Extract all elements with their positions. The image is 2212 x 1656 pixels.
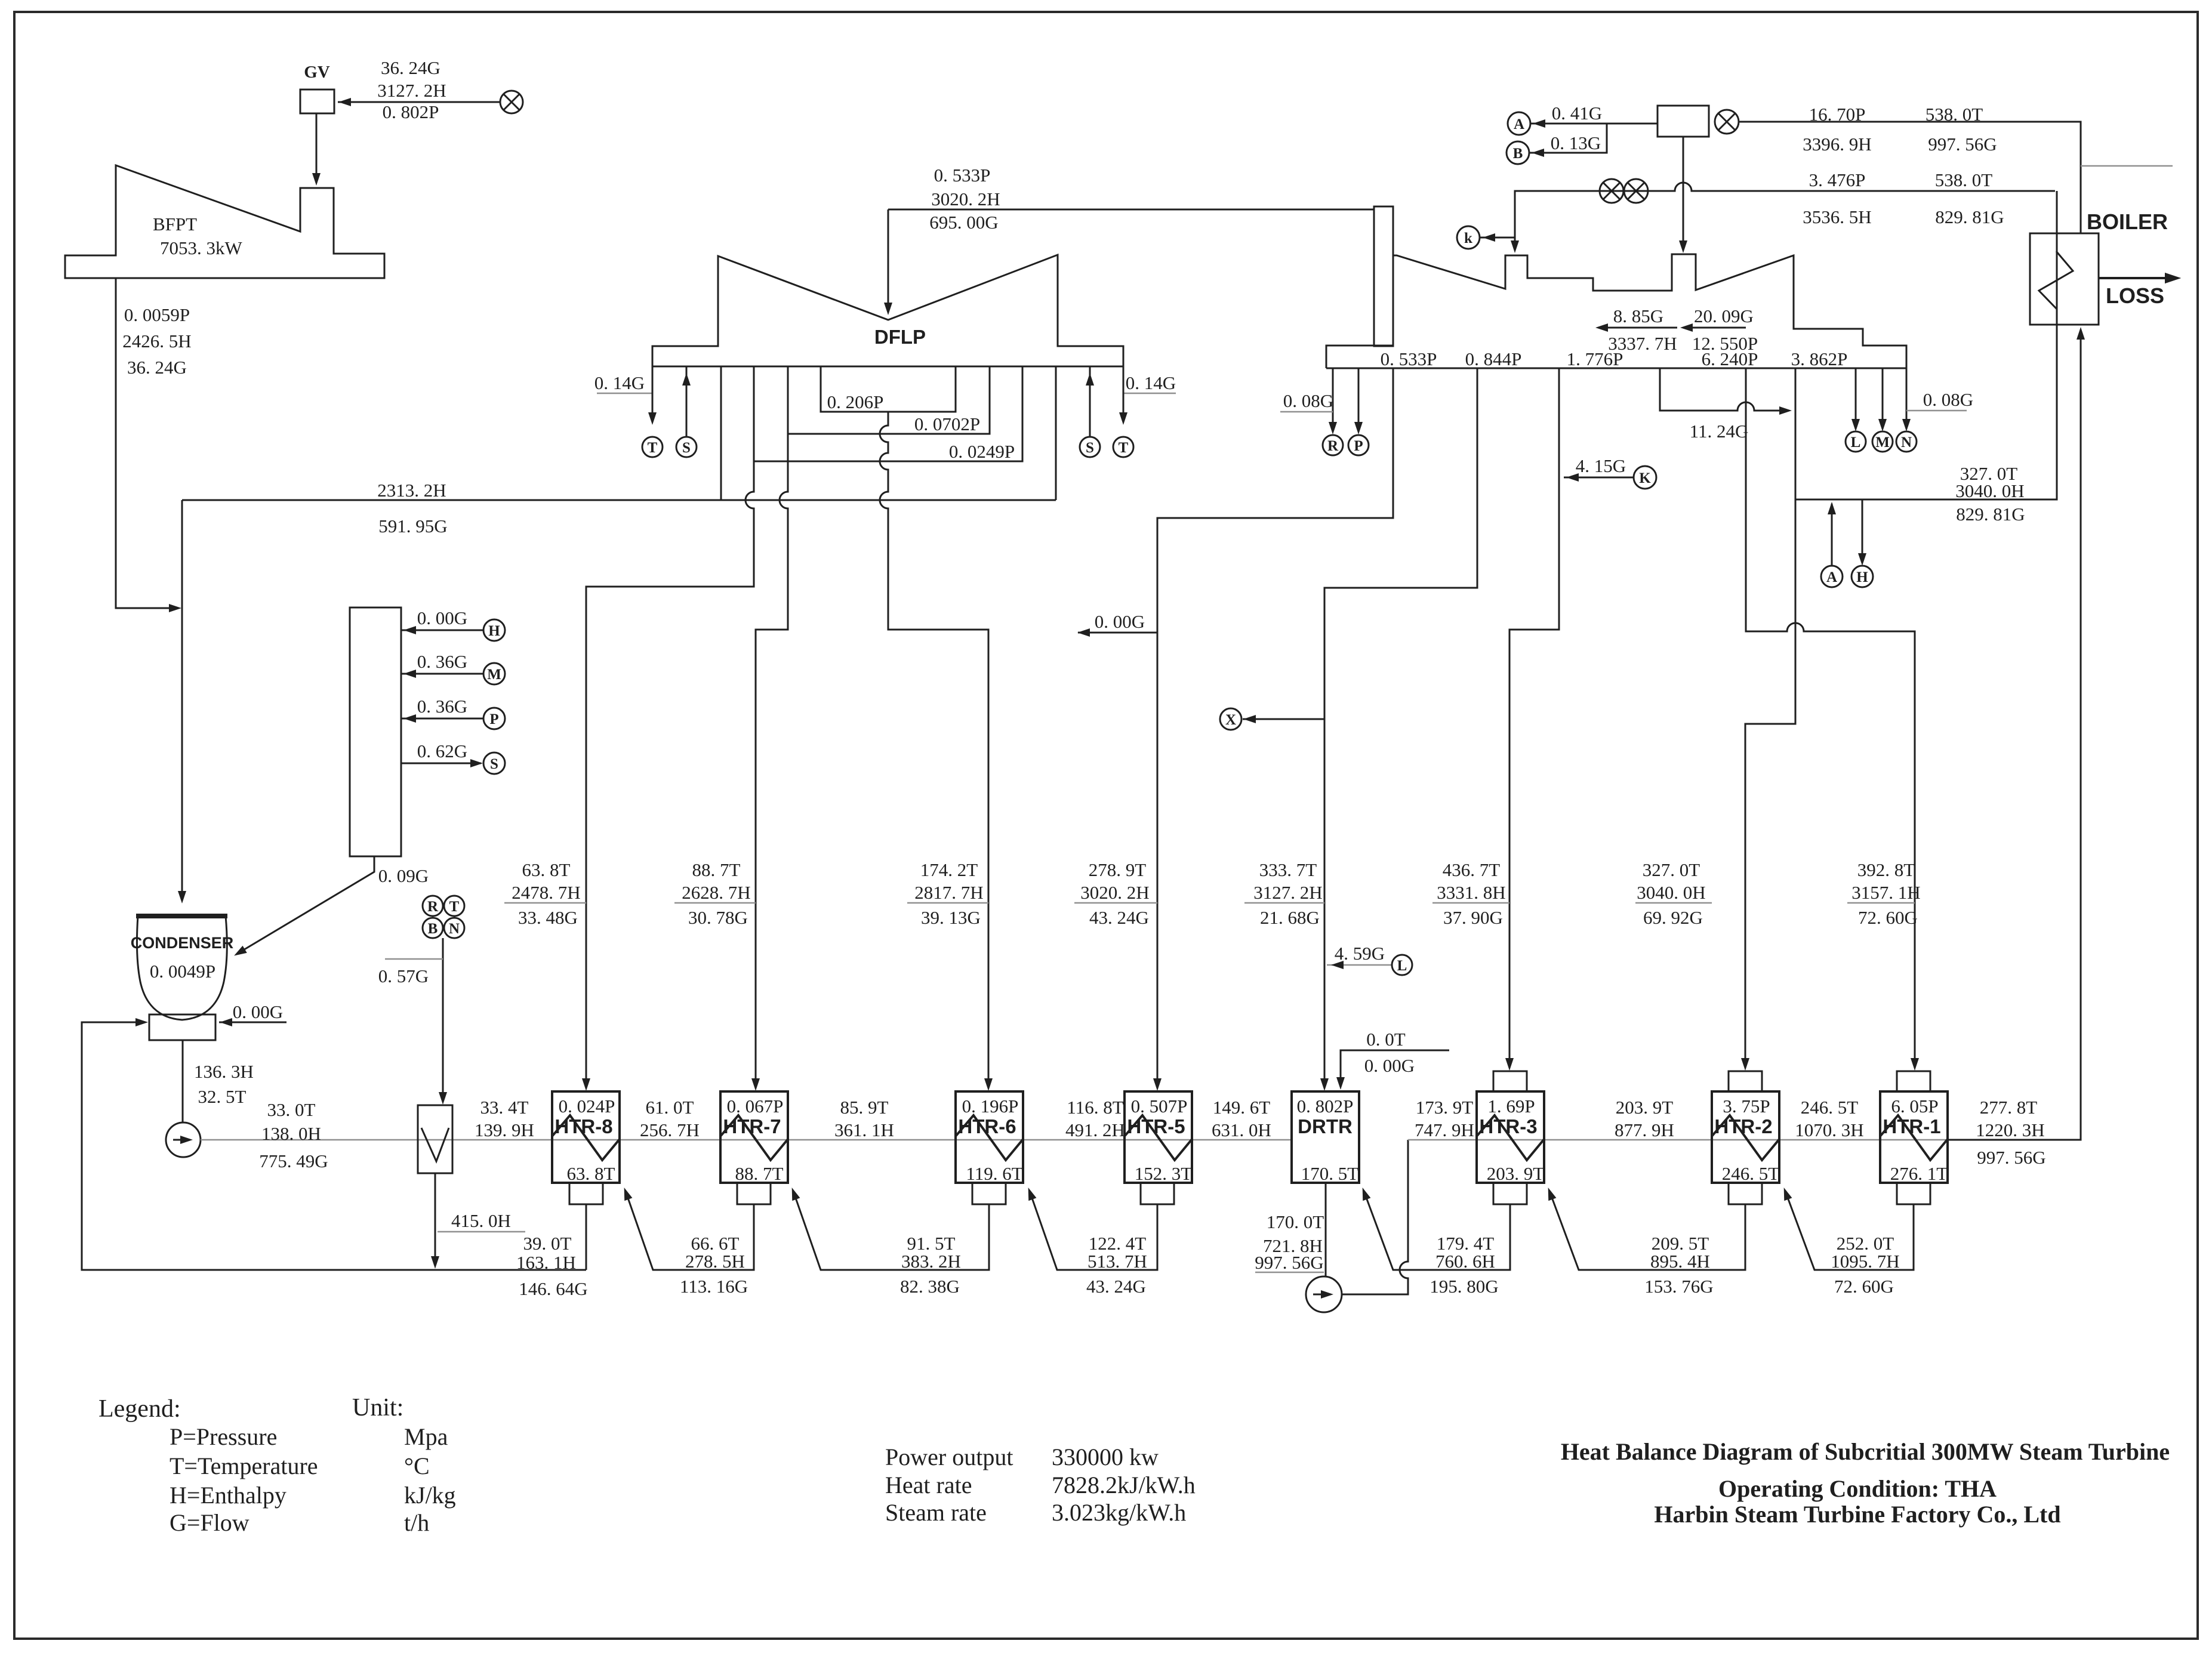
heater HTR-1 bottom box <box>1897 1183 1930 1204</box>
svg-text:139. 9H: 139. 9H <box>475 1120 534 1140</box>
wire BFPT exhaust down <box>116 278 178 608</box>
svg-text:0. 533P: 0. 533P <box>934 165 991 186</box>
wire H drop <box>1862 499 1863 563</box>
svg-text:3127. 2H: 3127. 2H <box>1253 882 1322 903</box>
svg-text:t/h: t/h <box>404 1509 429 1536</box>
svg-text:0. 802P: 0. 802P <box>383 101 439 122</box>
svg-text:DFLP: DFLP <box>874 326 926 348</box>
svg-text:0. 0049P: 0. 0049P <box>150 961 215 982</box>
svg-text:B: B <box>428 921 438 937</box>
svg-text:2426. 5H: 2426. 5H <box>122 331 191 351</box>
svg-text:173. 9T: 173. 9T <box>1416 1097 1474 1118</box>
node circle H (reheat) <box>1851 566 1873 587</box>
wire BFP discharge riser <box>1342 1140 1408 1294</box>
svg-text:8. 85G: 8. 85G <box>1613 306 1663 326</box>
svg-text:CONDENSER: CONDENSER <box>131 934 234 952</box>
turbine DFLP body <box>652 255 1123 366</box>
svg-text:N: N <box>1901 434 1912 451</box>
svg-text:39. 13G: 39. 13G <box>921 907 981 928</box>
svg-text:6. 05P: 6. 05P <box>1891 1096 1938 1117</box>
svg-text:H: H <box>488 623 500 639</box>
svg-text:3536. 5H: 3536. 5H <box>1803 206 1871 227</box>
heater HTR-6 drain box <box>972 1183 1006 1204</box>
svg-text:0. 57G: 0. 57G <box>378 966 429 986</box>
wire S tap <box>401 763 481 764</box>
svg-text:0. 14G: 0. 14G <box>1126 372 1176 393</box>
heater HTR-1 top box <box>1897 1071 1930 1091</box>
svg-text:61. 0T: 61. 0T <box>646 1097 694 1118</box>
svg-text:P=Pressure: P=Pressure <box>170 1423 277 1450</box>
wire 0.14G right <box>1123 393 1176 394</box>
svg-text:0. 00G: 0. 00G <box>233 1001 283 1022</box>
svg-text:33. 4T: 33. 4T <box>480 1097 529 1118</box>
svg-text:138. 0H: 138. 0H <box>261 1123 321 1144</box>
svg-text:HTR-7: HTR-7 <box>723 1115 781 1137</box>
node circle M <box>483 663 505 684</box>
svg-text:L: L <box>1851 434 1861 451</box>
svg-text:°C: °C <box>404 1453 430 1479</box>
svg-text:163. 1H: 163. 1H <box>516 1252 576 1273</box>
svg-text:82. 38G: 82. 38G <box>900 1276 960 1297</box>
svg-text:X: X <box>1225 712 1236 728</box>
wire 0.57G tick <box>385 958 443 960</box>
svg-text:760. 6H: 760. 6H <box>1435 1251 1495 1272</box>
wire HTR-2 drain cascade <box>1549 1191 1745 1270</box>
heater HTR-3 <box>1477 1091 1544 1183</box>
svg-text:3. 75P: 3. 75P <box>1723 1096 1770 1117</box>
wire HTR-1 drain cascade <box>1785 1191 1914 1270</box>
svg-text:39. 0T: 39. 0T <box>523 1233 572 1254</box>
boiler zigzag <box>2039 251 2073 309</box>
svg-text:0. 0059P: 0. 0059P <box>124 304 190 325</box>
svg-text:276. 1T: 276. 1T <box>1890 1163 1948 1184</box>
svg-text:63. 8T: 63. 8T <box>522 859 571 880</box>
svg-text:G=Flow: G=Flow <box>170 1509 249 1536</box>
wire 0.00G makeup <box>219 1022 286 1023</box>
svg-text:Operating Condition: THA: Operating Condition: THA <box>1718 1475 1997 1502</box>
svg-text:170. 5T: 170. 5T <box>1301 1163 1359 1184</box>
wire 0.08G left <box>1280 411 1333 413</box>
valve X (BFPT steam source) <box>500 91 523 113</box>
svg-text:246. 5T: 246. 5T <box>1801 1097 1859 1118</box>
svg-text:3040. 0H: 3040. 0H <box>1637 882 1705 903</box>
svg-text:1. 69P: 1. 69P <box>1487 1096 1535 1117</box>
svg-text:37. 90G: 37. 90G <box>1443 907 1503 928</box>
svg-text:16. 70P: 16. 70P <box>1809 104 1866 125</box>
svg-text:0. 802P: 0. 802P <box>1297 1096 1354 1117</box>
svg-text:Power output: Power output <box>885 1444 1013 1470</box>
svg-text:Mpa: Mpa <box>404 1423 448 1450</box>
wire HTR-6 steam supply <box>880 412 988 1087</box>
svg-text:392. 8T: 392. 8T <box>1857 859 1915 880</box>
svg-text:0. 14G: 0. 14G <box>594 372 645 393</box>
wire LP tap to exhaust line (left) <box>720 366 722 500</box>
wire LP inlet <box>888 209 889 310</box>
svg-text:415. 0H: 415. 0H <box>451 1210 511 1231</box>
heater HTR-2 top box <box>1729 1071 1762 1091</box>
svg-text:0. 844P: 0. 844P <box>1465 349 1522 369</box>
gland steam cooler <box>418 1105 452 1173</box>
heater HTR-6 <box>956 1091 1023 1183</box>
svg-text:152. 3T: 152. 3T <box>1135 1163 1193 1184</box>
svg-text:0. 024P: 0. 024P <box>559 1096 615 1117</box>
svg-text:997. 56G: 997. 56G <box>1928 134 1997 155</box>
svg-text:R: R <box>427 899 439 915</box>
turbine IP-HP body <box>1393 254 1906 368</box>
node circle P <box>1348 435 1369 455</box>
svg-text:6. 240P: 6. 240P <box>1702 349 1758 369</box>
svg-text:2817. 7H: 2817. 7H <box>914 882 983 903</box>
svg-text:36. 24G: 36. 24G <box>127 357 187 378</box>
svg-text:0. 13G: 0. 13G <box>1551 132 1601 153</box>
svg-text:BFPT: BFPT <box>153 214 197 235</box>
svg-text:153. 76G: 153. 76G <box>1644 1276 1713 1297</box>
svg-text:L: L <box>1397 958 1407 974</box>
wire 0.00G vent on HTR-5 supply <box>1078 632 1157 634</box>
svg-text:203. 9T: 203. 9T <box>1487 1163 1545 1184</box>
svg-text:631. 0H: 631. 0H <box>1212 1120 1271 1140</box>
wire feedwater line right <box>1408 1139 1948 1141</box>
svg-text:30. 78G: 30. 78G <box>688 907 748 928</box>
node 0.0702P equalizer box <box>788 366 990 434</box>
svg-text:S: S <box>1086 440 1094 456</box>
svg-text:36. 24G: 36. 24G <box>381 57 440 78</box>
node 0.206P equalizer box <box>821 366 956 412</box>
wire condenser inlet vertical <box>181 500 183 900</box>
svg-text:kJ/kg: kJ/kg <box>404 1482 456 1509</box>
svg-text:0. 00G: 0. 00G <box>1095 611 1145 632</box>
svg-text:695. 00G: 695. 00G <box>929 212 998 233</box>
svg-text:32. 5T: 32. 5T <box>198 1086 247 1107</box>
wire N tap <box>1906 368 1908 428</box>
svg-text:3040. 0H: 3040. 0H <box>1955 480 2024 501</box>
svg-text:A: A <box>1826 569 1837 585</box>
svg-text:T: T <box>1119 440 1129 456</box>
svg-text:7828.2kJ/kW.h: 7828.2kJ/kW.h <box>1052 1472 1196 1498</box>
svg-text:DRTR: DRTR <box>1298 1115 1353 1137</box>
svg-text:174. 2T: 174. 2T <box>920 859 978 880</box>
heater HTR-2 <box>1712 1091 1779 1183</box>
svg-text:P: P <box>1354 438 1363 454</box>
svg-text:11. 24G: 11. 24G <box>1690 421 1749 442</box>
heater HTR-8 drain box <box>569 1183 603 1204</box>
svg-text:4. 15G: 4. 15G <box>1576 455 1626 476</box>
svg-text:Harbin Steam Turbine Factory C: Harbin Steam Turbine Factory Co., Ltd <box>1654 1501 2060 1528</box>
svg-text:3. 862P: 3. 862P <box>1791 349 1848 369</box>
svg-text:895. 4H: 895. 4H <box>1650 1251 1710 1272</box>
wire M tap <box>401 673 483 675</box>
svg-text:491. 2H: 491. 2H <box>1065 1120 1125 1140</box>
svg-text:0. 00G: 0. 00G <box>417 607 467 628</box>
svg-text:146. 64G: 146. 64G <box>519 1278 587 1299</box>
svg-text:113. 16G: 113. 16G <box>680 1276 748 1297</box>
svg-text:3331. 8H: 3331. 8H <box>1437 882 1505 903</box>
wire R tap <box>1332 368 1334 431</box>
node circle S <box>483 753 505 774</box>
svg-text:0. 507P: 0. 507P <box>1131 1096 1188 1117</box>
svg-text:LOSS: LOSS <box>2106 283 2164 308</box>
wire from S circle left <box>686 366 688 437</box>
wire A riser <box>1831 504 1833 566</box>
svg-text:0. 0702P: 0. 0702P <box>914 414 980 434</box>
svg-text:Steam rate: Steam rate <box>885 1499 987 1526</box>
wire LP tap to exhaust line (right) <box>1055 366 1057 500</box>
svg-text:2478. 7H: 2478. 7H <box>512 882 580 903</box>
svg-text:829. 81G: 829. 81G <box>1935 206 2004 227</box>
svg-text:0. 36G: 0. 36G <box>417 696 467 717</box>
svg-text:330000 kw: 330000 kw <box>1052 1444 1159 1470</box>
svg-text:Legend:: Legend: <box>98 1395 181 1423</box>
wire HTR-5 steam supply (0.533P) <box>1157 368 1393 1087</box>
svg-text:538. 0T: 538. 0T <box>1926 104 1983 125</box>
node circle B <box>1506 141 1529 164</box>
wire gland flow 8.85G <box>1598 327 1677 329</box>
svg-text:1070. 3H: 1070. 3H <box>1795 1120 1863 1140</box>
svg-text:HTR-5: HTR-5 <box>1127 1115 1185 1137</box>
svg-text:3020. 2H: 3020. 2H <box>931 189 1000 209</box>
svg-text:0. 0T: 0. 0T <box>1366 1029 1406 1050</box>
wire P tap <box>1358 368 1360 431</box>
heater HTR-8 <box>552 1091 620 1183</box>
svg-text:H=Enthalpy: H=Enthalpy <box>170 1482 286 1509</box>
svg-text:877. 9H: 877. 9H <box>1615 1120 1674 1140</box>
wire 0.41G <box>1530 123 1658 125</box>
wire condenser return loop <box>82 1022 586 1270</box>
svg-text:278. 5H: 278. 5H <box>685 1251 745 1272</box>
svg-text:B: B <box>1513 146 1523 162</box>
wire HTR-8 drain to condenser line <box>586 1204 587 1270</box>
svg-text:277. 8T: 277. 8T <box>1980 1097 2038 1118</box>
svg-text:H: H <box>1856 569 1868 585</box>
wire M tap <box>1882 368 1884 428</box>
svg-text:0. 533P: 0. 533P <box>1381 349 1437 369</box>
wire cold reheat line <box>1795 191 2057 499</box>
wire DRTR aux inlet 0.0T <box>1341 1050 1449 1086</box>
condenser top thick edge <box>136 914 227 918</box>
wire condensate to pump <box>182 1040 184 1122</box>
wire manifold lip <box>1326 346 1393 368</box>
svg-text:3127. 2H: 3127. 2H <box>377 80 446 101</box>
svg-text:3157. 1H: 3157. 1H <box>1851 882 1920 903</box>
svg-text:333. 7T: 333. 7T <box>1259 859 1317 880</box>
heater HTR-1 <box>1880 1091 1948 1183</box>
svg-text:246. 5T: 246. 5T <box>1722 1163 1780 1184</box>
svg-text:T: T <box>449 899 460 915</box>
valve HP X <box>1715 110 1739 134</box>
svg-text:S: S <box>682 440 691 456</box>
svg-text:GV: GV <box>304 63 330 82</box>
wire LP exhaust to condenser (2313.2H line) <box>182 499 1056 501</box>
condenser hotwell <box>149 1014 215 1040</box>
heater HTR-5 <box>1125 1091 1192 1183</box>
tank SSR gland steam header <box>350 607 401 856</box>
svg-text:513. 7H: 513. 7H <box>1087 1251 1147 1272</box>
condenser shell <box>137 916 227 1020</box>
wire HTR-8 steam supply <box>586 461 754 1087</box>
svg-text:2628. 7H: 2628. 7H <box>682 882 750 903</box>
svg-text:Heat rate: Heat rate <box>885 1472 972 1498</box>
svg-text:136. 3H: 136. 3H <box>194 1061 254 1082</box>
svg-text:21. 68G: 21. 68G <box>1260 907 1320 928</box>
wire extraction manifold <box>1326 368 1906 369</box>
svg-text:0. 0249P: 0. 0249P <box>949 441 1015 462</box>
wire HTR-2 steam supply / cold reheat riser (3.862P) <box>1745 368 1795 1068</box>
node circle L <box>1846 431 1866 452</box>
wire k tap <box>1480 237 1515 239</box>
svg-text:1095. 7H: 1095. 7H <box>1831 1251 1899 1272</box>
svg-text:0. 08G: 0. 08G <box>1283 390 1333 411</box>
svg-text:0. 08G: 0. 08G <box>1923 389 1973 410</box>
wire LP crossover pipe <box>888 209 1374 211</box>
wire gland flow 20.09G <box>1683 327 1746 329</box>
wire LOSS arrow <box>2099 277 2176 279</box>
node circle k <box>1457 226 1480 249</box>
svg-text:Heat Balance Diagram of Subcri: Heat Balance Diagram of Subcritial 300MW… <box>1561 1438 2170 1465</box>
svg-text:43. 24G: 43. 24G <box>1089 907 1149 928</box>
svg-text:383. 2H: 383. 2H <box>901 1251 961 1272</box>
wire 0.08G right <box>1906 410 1967 412</box>
svg-text:997. 56G: 997. 56G <box>1977 1147 2045 1168</box>
svg-text:2313. 2H: 2313. 2H <box>377 480 446 501</box>
svg-text:0. 067P: 0. 067P <box>727 1096 784 1117</box>
svg-text:72. 60G: 72. 60G <box>1834 1276 1894 1297</box>
wire X tap <box>1243 718 1324 720</box>
svg-text:116. 8T: 116. 8T <box>1067 1097 1123 1118</box>
svg-text:N: N <box>449 921 460 937</box>
svg-text:436. 7T: 436. 7T <box>1443 859 1501 880</box>
node circles R T B N <box>423 896 443 916</box>
svg-text:T: T <box>648 440 658 456</box>
svg-text:591. 95G: 591. 95G <box>378 516 447 536</box>
svg-text:33. 0T: 33. 0T <box>267 1099 316 1120</box>
svg-text:119. 6T: 119. 6T <box>966 1163 1022 1184</box>
valve reheat intercept 1 <box>1624 179 1648 203</box>
wire L tap 4.59G <box>1327 964 1391 966</box>
svg-text:203. 9T: 203. 9T <box>1616 1097 1674 1118</box>
wire L tap from manifold <box>1855 368 1857 428</box>
wire DRTR steam supply (0.844P) <box>1324 368 1477 1087</box>
svg-text:HTR-3: HTR-3 <box>1479 1115 1537 1137</box>
svg-text:361. 1H: 361. 1H <box>834 1120 894 1140</box>
wire main steam line <box>1739 122 2081 233</box>
wire stub top right <box>2081 165 2173 167</box>
wire X-to-GV steam supply <box>338 101 500 103</box>
svg-text:829. 81G: 829. 81G <box>1956 504 2025 525</box>
svg-text:0. 196P: 0. 196P <box>962 1096 1019 1117</box>
node S right <box>1080 437 1100 457</box>
svg-text:HTR-1: HTR-1 <box>1883 1115 1940 1137</box>
wire GV to BFPT inlet <box>316 113 318 183</box>
svg-text:0. 00G: 0. 00G <box>1364 1055 1415 1076</box>
wire feedwater to boiler <box>1948 329 2081 1140</box>
svg-text:63. 8T: 63. 8T <box>567 1163 615 1184</box>
svg-text:69. 92G: 69. 92G <box>1643 907 1703 928</box>
svg-text:T=Temperature: T=Temperature <box>170 1453 318 1479</box>
node 0.0249P equalizer box <box>754 366 1022 461</box>
node circle K <box>1634 466 1656 489</box>
svg-text:0. 41G: 0. 41G <box>1552 103 1602 124</box>
svg-text:747. 9H: 747. 9H <box>1415 1120 1474 1140</box>
valve HP stop-control box <box>1658 106 1709 137</box>
heater HTR-7 <box>720 1091 788 1183</box>
turbine BFPT body <box>65 165 384 278</box>
svg-text:R: R <box>1327 438 1339 454</box>
svg-text:HTR-2: HTR-2 <box>1714 1115 1772 1137</box>
svg-text:HTR-8: HTR-8 <box>554 1115 612 1137</box>
wire H tap <box>401 630 483 631</box>
node circle P <box>483 708 505 729</box>
wire HTR-5 drain cascade <box>1030 1191 1157 1270</box>
svg-text:538. 0T: 538. 0T <box>1935 169 1993 190</box>
wire 0.14G left <box>597 393 652 394</box>
wire to T circle right <box>1123 366 1125 421</box>
svg-text:43. 24G: 43. 24G <box>1086 1276 1146 1297</box>
wire HTR-1 steam supply (6.240P) <box>1746 368 1915 1068</box>
wire from S circle right <box>1089 366 1091 437</box>
svg-text:72. 60G: 72. 60G <box>1858 907 1918 928</box>
heater HTR-7 drain box <box>737 1183 771 1204</box>
node circle H <box>483 619 505 641</box>
svg-text:P: P <box>489 711 498 727</box>
wire HTR-3 steam supply (1.776P) <box>1509 368 1559 1068</box>
svg-text:M: M <box>1875 434 1890 451</box>
svg-text:33. 48G: 33. 48G <box>518 907 578 928</box>
wire 11.24G branch <box>1660 368 1788 411</box>
svg-text:149. 6T: 149. 6T <box>1213 1097 1271 1118</box>
node circle R <box>1323 435 1343 455</box>
node circle A (valve leak) <box>1508 112 1530 135</box>
svg-text:1. 776P: 1. 776P <box>1567 349 1623 369</box>
node circle A (reheat) <box>1821 566 1843 587</box>
heater HTR-5 drain box <box>1141 1183 1174 1204</box>
wire K tap 4.15G <box>1564 477 1634 479</box>
node circle X <box>1220 708 1241 730</box>
node LP end box <box>1374 206 1393 346</box>
boiler box <box>2030 233 2099 325</box>
svg-text:0. 09G: 0. 09G <box>378 865 429 886</box>
svg-text:88. 7T: 88. 7T <box>692 859 741 880</box>
svg-text:7053. 3kW: 7053. 3kW <box>160 238 243 258</box>
svg-text:0. 206P: 0. 206P <box>827 391 884 412</box>
svg-text:3.023kg/kW.h: 3.023kg/kW.h <box>1052 1499 1186 1526</box>
heater HTR-2 bottom box <box>1729 1183 1762 1204</box>
wire HTR-7 drain cascade <box>626 1191 754 1270</box>
wire HTR-7 steam supply <box>756 434 788 1087</box>
node S left <box>676 437 697 457</box>
wire HP inlet stem <box>1683 137 1684 249</box>
svg-text:K: K <box>1639 470 1651 486</box>
svg-text:k: k <box>1464 230 1472 246</box>
pump condensate <box>166 1122 201 1157</box>
deaerator DRTR <box>1292 1091 1359 1183</box>
svg-text:3. 476P: 3. 476P <box>1809 169 1866 190</box>
svg-text:195. 80G: 195. 80G <box>1430 1276 1498 1297</box>
svg-text:327. 0T: 327. 0T <box>1643 859 1700 880</box>
wire SSR drain to condenser <box>236 856 374 954</box>
node circle L (tap) <box>1392 955 1412 975</box>
svg-text:85. 9T: 85. 9T <box>840 1097 889 1118</box>
svg-text:278. 9T: 278. 9T <box>1089 859 1147 880</box>
pump boiler feed <box>1306 1276 1342 1312</box>
wire gland cooler drain 415.0H <box>435 1173 436 1266</box>
node T right <box>1113 437 1133 457</box>
svg-text:0. 62G: 0. 62G <box>417 741 467 761</box>
svg-text:88. 7T: 88. 7T <box>735 1163 784 1184</box>
valve reheat intercept 2 <box>1600 179 1623 203</box>
wire 0.13G <box>1529 124 1607 153</box>
svg-text:1220. 3H: 1220. 3H <box>1976 1120 2044 1140</box>
svg-text:0. 36G: 0. 36G <box>417 651 467 672</box>
